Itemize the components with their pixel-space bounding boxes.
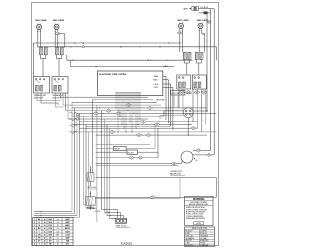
label comb node 2	[116, 112, 122, 115]
svg-text:240V 2.4KW: 240V 2.4KW	[197, 19, 208, 22]
svg-text:DISCONNECT POWER: DISCONNECT POWER	[190, 202, 207, 204]
svg-text:(67B): (67B)	[196, 223, 201, 225]
wire R1a continue to switch	[179, 35, 181, 53]
wire right box drop 2	[182, 89, 184, 113]
terminal lead 2	[105, 212, 121, 214]
svg-text:SWITCH LF: SWITCH LF	[34, 97, 43, 99]
wire EOC pin drop 6	[125, 96, 127, 132]
EOC right pin vertical 3	[170, 84, 172, 126]
svg-text:3: 3	[34, 225, 35, 227]
wire run y197.3	[96, 196, 217, 198]
surface element L2 (left rear)	[54, 25, 59, 30]
svg-text:WIRE COLOR CODE: WIRE COLOR CODE	[192, 228, 207, 230]
door lock switch box	[171, 90, 185, 95]
wire L2b down	[57, 29, 59, 31]
convection fan motor M2	[181, 151, 193, 163]
comb arrows	[99, 107, 100, 108]
svg-text:L1: L1	[57, 219, 59, 221]
wire comb h12 y126.4	[86, 125, 170, 127]
terminal block TB1	[116, 218, 127, 223]
svg-text:P-PINK: P-PINK	[200, 243, 205, 245]
wire EOC pin drop 3	[119, 96, 121, 117]
infinite switch L1 terminals	[39, 55, 41, 59]
relay K2 box	[127, 150, 138, 154]
wire comb h14 y131.9	[72, 131, 216, 133]
wire lamp to door switch	[198, 8, 210, 10]
svg-text:SWITCH RF: SWITCH RF	[52, 97, 61, 99]
svg-text:DOOR: DOOR	[186, 93, 192, 95]
svg-text:3142620: 3142620	[120, 241, 132, 245]
infinite switch R1 contacts	[183, 52, 186, 59]
svg-text:6: 6	[34, 234, 35, 236]
wire comb h6 y110.7	[66, 110, 181, 112]
wire comb h7 y113.4	[79, 112, 216, 114]
wire switch R2 drop	[198, 63, 200, 75]
bus interconnect v1	[66, 55, 68, 60]
wire right bus vertical C top	[211, 8, 215, 10]
svg-text:PS-2: PS-2	[164, 66, 168, 68]
wire right bus vertical B	[210, 13, 212, 151]
svg-text:R-RED: R-RED	[185, 233, 190, 235]
infinite switch R2 contacts	[195, 52, 198, 59]
bus junction dots	[83, 42, 84, 43]
wire right box drop 6	[205, 89, 207, 125]
label switch box D	[194, 90, 200, 94]
label relay node 1	[129, 156, 135, 159]
warning box frame	[185, 197, 214, 226]
wire trunk v7	[88, 132, 90, 205]
wire right bus vertical A	[206, 13, 208, 111]
wire motor right	[193, 110, 207, 112]
wire trunk v4	[79, 113, 81, 217]
wire R2b jog to switch	[202, 33, 205, 35]
wire trunk v8	[91, 100, 93, 173]
svg-text:2: 2	[34, 222, 35, 224]
wire right box drop 1	[178, 89, 180, 108]
svg-text:16: 16	[44, 238, 46, 240]
EOC right pin vertical 4	[172, 87, 174, 129]
infinite switch R1 terminals	[183, 60, 185, 63]
switch box A internals	[35, 85, 38, 91]
wire code table frame	[185, 227, 215, 247]
svg-text:BU-BLUE: BU-BLUE	[200, 233, 206, 235]
wire lamp drop right	[210, 9, 212, 13]
wire L1b down to switch	[39, 29, 41, 47]
wire switch boxB drop 1	[55, 93, 57, 107]
label comb node 7	[154, 123, 160, 126]
wire EOC pin drop 12	[137, 96, 139, 125]
wire trunk v10	[101, 111, 103, 210]
svg-text:1500: 1500	[48, 231, 52, 233]
wire run y177.5	[96, 177, 217, 179]
svg-text:16: 16	[44, 231, 46, 233]
surface switch box D	[192, 75, 206, 89]
wire switch boxB drop 5	[67, 93, 69, 119]
door lock motor M1	[183, 108, 193, 118]
wire comb h9 y119.0	[68, 118, 148, 120]
bake ignitor E2	[86, 197, 96, 206]
svg-text:18: 18	[44, 244, 46, 246]
coil squiggle 4	[70, 131, 77, 133]
wire motor left upper	[164, 110, 183, 112]
svg-text:7B: 7B	[142, 121, 144, 123]
EOC right pin vertical 1	[165, 76, 167, 120]
wire EOC pin drop 4	[121, 96, 123, 125]
wire trunk v3	[76, 120, 78, 215]
label comb node 1	[106, 109, 112, 112]
wire comb h13 y128.2	[79, 127, 198, 129]
svg-text:240V 1.8KW: 240V 1.8KW	[53, 19, 64, 22]
wire from 4W label right and down	[57, 35, 59, 47]
wire right box drop 3	[192, 89, 194, 122]
svg-text:750: 750	[49, 238, 52, 240]
svg-text:L2: L2	[57, 241, 59, 243]
connector ring P2-b	[76, 118, 79, 121]
coil squiggle 2	[70, 119, 77, 121]
label comb node 5	[93, 112, 99, 115]
wire R1a down	[179, 28, 181, 31]
svg-text:L1: L1	[57, 238, 59, 240]
wire R2a down to switch	[198, 28, 200, 52]
wire switch boxB drop 4	[65, 93, 67, 111]
svg-text:BROIL: BROIL	[153, 79, 158, 81]
wire switch R1 drop	[186, 63, 188, 75]
bus interconnect v2	[69, 60, 71, 66]
svg-text:Y-YELLOW: Y-YELLOW	[185, 235, 193, 237]
svg-text:L1: L1	[57, 228, 59, 230]
wire right box drop 5	[201, 89, 203, 132]
svg-text:4 DLB: 4 DLB	[154, 84, 158, 86]
wire trunk v12	[106, 125, 108, 216]
svg-text:5: 5	[34, 231, 35, 233]
wire lock box drops	[173, 95, 175, 108]
infinite switch R2 terminals	[195, 60, 197, 63]
svg-text:16: 16	[44, 222, 46, 224]
wire EOC pin drop 8	[129, 96, 131, 122]
svg-text:2B: 2B	[111, 132, 113, 134]
wire fan left feed	[96, 163, 182, 165]
relay K1 box	[114, 146, 127, 150]
bus right drop to border bus	[215, 47, 217, 60]
fan shaft stub	[181, 161, 183, 163]
bus line N y60	[67, 59, 193, 61]
junction dot lamp feed	[190, 8, 191, 9]
wire switch boxB drop 3	[62, 93, 64, 105]
wire relay feed	[96, 143, 150, 145]
bus extra arrows	[140, 46, 141, 47]
svg-text:L2: L2	[57, 231, 59, 233]
wiring chart table	[33, 218, 74, 246]
svg-text:9: 9	[34, 244, 35, 246]
svg-text:L1 L2 N: L1 L2 N	[94, 211, 100, 213]
wire EOC pin drop 5	[123, 96, 125, 129]
wire relay run 1	[96, 147, 114, 149]
bus line y66.5	[90, 66, 174, 68]
wire fan feed lower	[193, 154, 214, 156]
wire trunk v9	[96, 105, 98, 222]
wire comb h1 y97.2	[61, 96, 149, 98]
wire motor bottom drop	[187, 118, 189, 136]
bus feeder left drop	[33, 43, 35, 77]
label switch box C	[179, 90, 185, 94]
terminal node on bus L2	[82, 46, 84, 48]
terminal lead 3	[107, 215, 124, 217]
wire trunk v1	[71, 102, 73, 211]
wire switch L1 drop	[42, 59, 44, 77]
wire fan feed upper	[193, 149, 211, 151]
svg-text:BR-BROWN: BR-BROWN	[200, 240, 208, 242]
wire right bus vertical C	[213, 9, 215, 155]
wire trunk v5	[83, 116, 85, 205]
svg-text:V-VIOLET: V-VIOLET	[185, 240, 192, 242]
svg-text:RF: RF	[180, 92, 182, 94]
label relay node 2	[138, 156, 144, 159]
switch box D internals	[194, 82, 197, 88]
label 2W on y135	[146, 133, 152, 136]
surface switch box B	[52, 77, 68, 94]
wire switch boxA drop 2	[40, 93, 42, 103]
wire R1b down to switch	[181, 28, 183, 52]
wire EOC pin drop 10	[133, 96, 135, 114]
wire relay vertical a	[154, 125, 156, 149]
switch box C internals	[178, 82, 181, 88]
svg-text:16: 16	[44, 228, 46, 230]
node 4W label right	[177, 31, 182, 34]
wire comb h5 y107.9	[72, 107, 207, 109]
svg-text:L2: L2	[57, 222, 59, 224]
label 2W on y197	[150, 196, 156, 199]
svg-text:1200: 1200	[48, 228, 52, 230]
svg-text:8: 8	[34, 241, 35, 243]
EOC bottom connector pins P1	[115, 93, 117, 96]
wire relay vertical b	[157, 128, 159, 157]
svg-text:600: 600	[49, 241, 52, 243]
coil squiggle 3	[70, 125, 77, 127]
coil squiggle 1	[70, 112, 77, 114]
svg-text:IN OFF POSITION UNLESS: IN OFF POSITION UNLESS	[186, 212, 205, 214]
wire run y198.6	[96, 198, 180, 200]
svg-text:240V 2.4KW: 240V 2.4KW	[35, 19, 46, 22]
EOC right pin vertical 2	[167, 80, 169, 124]
wire trunk v11	[104, 119, 106, 213]
wire comb h3 y102.4	[72, 101, 157, 103]
infinite switch L2 contacts	[55, 48, 58, 55]
svg-text:16: 16	[44, 219, 46, 221]
svg-text:2350: 2350	[48, 219, 52, 221]
surface element R2 (right rear)	[198, 24, 203, 29]
wire switch boxA drop 1	[36, 93, 38, 101]
terminal lead 4	[110, 218, 116, 220]
oven lamp fixture	[192, 7, 199, 11]
label comb node 6	[140, 120, 146, 123]
surface switch box A	[34, 77, 50, 94]
infinite switch L2 terminals	[55, 55, 57, 59]
wire right box drop 4	[197, 89, 199, 128]
svg-text:4W: 4W	[57, 33, 60, 35]
svg-text:PR-PURPLE: PR-PURPLE	[185, 245, 193, 247]
wire comb h11 y124.5	[72, 124, 192, 126]
svg-text:RELAY: RELAY	[114, 148, 120, 151]
svg-text:WARNING: WARNING	[193, 198, 205, 201]
wire to table 2	[34, 213, 75, 215]
svg-text:LATCH SW: LATCH SW	[156, 98, 165, 101]
wire run y165.7	[96, 165, 179, 167]
svg-text:DOOR SW: DOOR SW	[200, 7, 208, 9]
surface switch box C	[177, 75, 191, 89]
label 4W on y135	[136, 133, 142, 136]
wire motor left lower	[160, 114, 183, 116]
svg-text:240V 1.8KW: 240V 1.8KW	[177, 19, 188, 22]
wire EOC pin drop 7	[127, 96, 129, 111]
electronic oven control box U1	[98, 71, 163, 96]
wire comb h4 y105.1	[63, 104, 161, 106]
wire relay run 2	[96, 151, 127, 153]
svg-text:16: 16	[44, 241, 46, 243]
connector ring P2-a	[76, 113, 79, 116]
svg-text:4W: 4W	[179, 33, 182, 35]
wire switch boxB drop 2	[60, 93, 62, 97]
wire relay run 3	[96, 157, 129, 159]
switch box B internals	[54, 85, 57, 91]
wire switch L2 drop	[58, 59, 60, 77]
wire EOC pin drop 13	[139, 96, 141, 119]
wire trunk v13	[109, 128, 111, 219]
svg-text:7: 7	[34, 238, 35, 240]
svg-text:SURF: SURF	[65, 219, 69, 221]
terminal lead 1	[102, 208, 118, 210]
page border frame	[32, 3, 219, 246]
wire to table 3	[34, 215, 77, 217]
wire EOC pin drop 9	[131, 96, 133, 132]
wire ignitor bends	[84, 204, 86, 206]
bus line L2 y46.8	[38, 46, 217, 48]
svg-text:1800: 1800	[48, 222, 52, 224]
wire comb h10 y121.7	[79, 121, 198, 123]
label motor node	[191, 126, 197, 129]
svg-text:W-WHITE: W-WHITE	[200, 231, 206, 233]
label comb node 3	[126, 103, 132, 106]
node 4W label left	[55, 32, 60, 35]
svg-text:HI-LIMIT: HI-LIMIT	[128, 152, 134, 154]
wire EOC pin drop 1	[115, 96, 117, 108]
wire trunk v2	[74, 108, 76, 214]
svg-text:SURF: SURF	[65, 222, 69, 224]
surface element L1 (left front)	[37, 25, 42, 30]
svg-text:2W: 2W	[203, 34, 206, 36]
wire L1a down to switch	[37, 29, 39, 47]
svg-text:2100: 2100	[48, 225, 52, 227]
wire lamp branch lower	[198, 12, 210, 14]
label R2 wire code	[206, 21, 211, 24]
wire EOC pin drop 2	[117, 96, 119, 132]
label 67B	[194, 221, 204, 224]
svg-text:DOORS CLOSED. SWITCHES: DOORS CLOSED. SWITCHES	[186, 209, 207, 211]
bus line L1 y43	[34, 42, 182, 44]
svg-text:1: 1	[34, 219, 35, 221]
wire to table 1	[34, 211, 72, 213]
wire R2b down	[201, 28, 203, 34]
svg-text:ELECTRONIC OVEN CONTROL: ELECTRONIC OVEN CONTROL	[99, 74, 127, 76]
wire y135 run	[96, 134, 207, 136]
wire comb h8 y116.2	[72, 115, 164, 117]
wire L2a down to switch	[54, 29, 56, 47]
broil ignitor E1	[87, 173, 94, 181]
wire comb h2 y99.6	[92, 99, 153, 101]
svg-text:GN-GREEN: GN-GREEN	[200, 235, 208, 237]
svg-text:BROIL: BROIL	[65, 228, 70, 230]
label comb node 4	[147, 106, 153, 109]
infinite switch L1 contacts	[39, 48, 42, 55]
svg-text:FAN MOTOR: FAN MOTOR	[170, 172, 181, 175]
wire trunk v6	[85, 125, 87, 206]
wire to table 4	[34, 216, 80, 218]
label comb node 8	[109, 130, 115, 133]
svg-text:LOCK SW: LOCK SW	[171, 93, 179, 95]
surface element R1 (right front)	[179, 24, 184, 29]
wire EOC pin drop 11	[135, 96, 137, 129]
